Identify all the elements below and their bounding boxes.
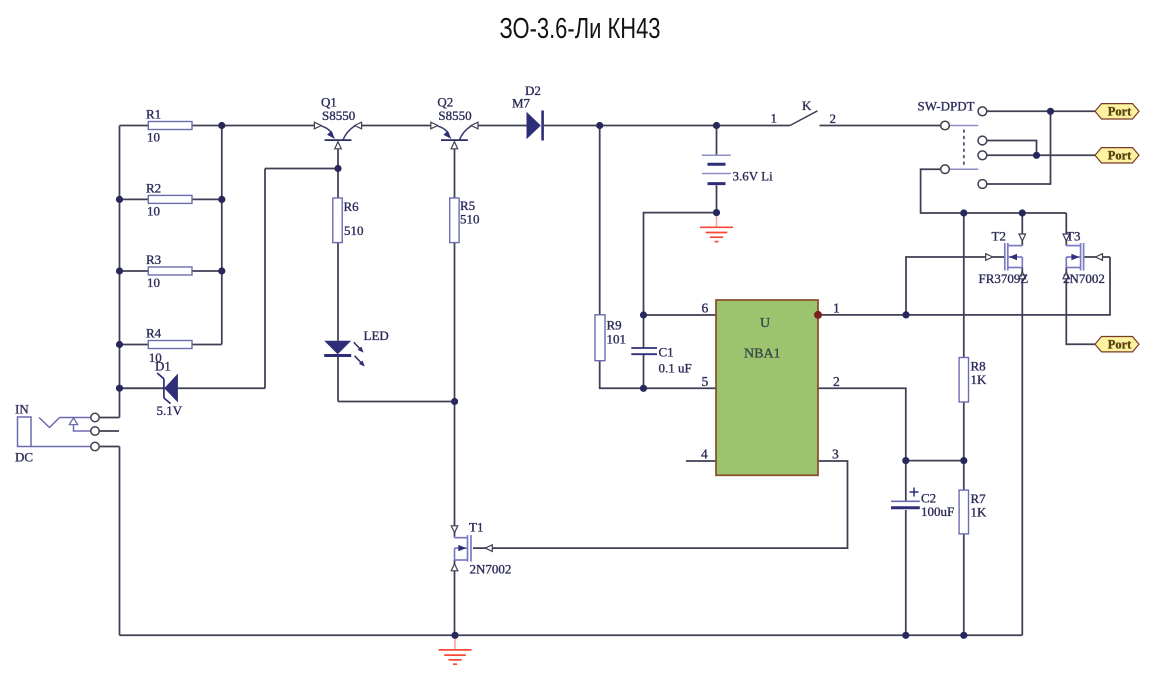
svg-text:510: 510	[460, 212, 480, 227]
svg-text:Port: Port	[1108, 149, 1132, 163]
svg-text:0.1 uF: 0.1 uF	[659, 361, 692, 376]
svg-text:1: 1	[771, 111, 778, 126]
svg-text:D1: D1	[155, 359, 171, 374]
svg-text:T2: T2	[992, 229, 1006, 244]
svg-text:Port: Port	[1108, 338, 1132, 352]
svg-text:2: 2	[833, 374, 840, 389]
svg-text:5: 5	[702, 374, 709, 389]
svg-text:T3: T3	[1066, 229, 1080, 244]
svg-text:1K: 1K	[971, 372, 988, 387]
svg-text:R3: R3	[146, 252, 161, 267]
svg-text:U: U	[760, 316, 770, 331]
svg-text:100uF: 100uF	[921, 504, 954, 519]
svg-text:Port: Port	[1108, 105, 1132, 119]
svg-text:10: 10	[147, 130, 160, 145]
svg-text:2: 2	[830, 111, 837, 126]
svg-text:1: 1	[833, 301, 840, 316]
svg-text:K: K	[802, 98, 812, 113]
svg-text:R2: R2	[146, 181, 161, 196]
svg-text:1K: 1K	[971, 505, 988, 520]
svg-text:6: 6	[702, 301, 709, 316]
svg-text:FR3709Z: FR3709Z	[979, 271, 1029, 286]
svg-text:SW-DPDT: SW-DPDT	[918, 99, 975, 114]
svg-text:4: 4	[701, 447, 708, 462]
svg-text:5.1V: 5.1V	[157, 403, 183, 418]
svg-text:2N7002: 2N7002	[470, 562, 512, 577]
svg-text:3: 3	[832, 447, 839, 462]
svg-text:101: 101	[607, 332, 627, 347]
svg-text:10: 10	[147, 204, 160, 219]
svg-text:LED: LED	[364, 328, 389, 343]
svg-text:2N7002: 2N7002	[1063, 271, 1105, 286]
svg-text:R9: R9	[607, 318, 622, 333]
svg-text:R4: R4	[146, 326, 162, 341]
svg-text:S8550: S8550	[322, 108, 355, 123]
svg-text:IN: IN	[15, 402, 29, 417]
svg-text:M7: M7	[512, 96, 531, 111]
svg-text:ЗО-3.6-Ли КН43: ЗО-3.6-Ли КН43	[500, 13, 661, 45]
svg-text:R6: R6	[344, 199, 360, 214]
svg-text:NBA1: NBA1	[744, 347, 781, 362]
svg-text:510: 510	[344, 223, 364, 238]
svg-text:DC: DC	[15, 450, 33, 465]
svg-text:10: 10	[147, 275, 160, 290]
svg-text:S8550: S8550	[438, 108, 471, 123]
svg-text:C1: C1	[659, 345, 674, 360]
svg-text:R1: R1	[146, 107, 161, 122]
svg-text:T1: T1	[469, 520, 483, 535]
svg-text:3.6V Li: 3.6V Li	[733, 169, 774, 184]
